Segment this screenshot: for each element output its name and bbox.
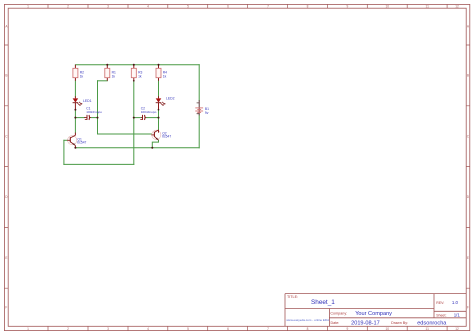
- junction dots: [74, 64, 159, 149]
- wire Q1 base stub: [64, 139, 67, 141]
- node R4 top: [158, 64, 160, 66]
- svg-text:Drawn By:: Drawn By:: [391, 321, 408, 325]
- svg-text:edsonrocha: edsonrocha: [417, 320, 447, 326]
- node Q2 emitter: [151, 147, 153, 149]
- wire C2 right lead: [146, 117, 159, 119]
- svg-text:5: 5: [187, 5, 189, 9]
- svg-text:4: 4: [147, 5, 149, 9]
- battery B1: [195, 100, 209, 115]
- node C2 left: [133, 117, 135, 119]
- svg-text:1.0: 1.0: [452, 300, 459, 305]
- wires (green): [64, 65, 199, 165]
- svg-text:6: 6: [227, 5, 229, 9]
- svg-text:LED2: LED2: [166, 96, 175, 100]
- svg-text:10: 10: [386, 327, 390, 331]
- svg-text:B: B: [467, 74, 469, 78]
- svg-text:TITLE:: TITLE:: [287, 295, 298, 299]
- svg-text:100nFnopo: 100nFnopo: [86, 110, 102, 114]
- svg-text:LED1: LED1: [83, 99, 92, 103]
- svg-text:6: 6: [227, 327, 229, 331]
- node Q1 emitter: [74, 147, 76, 149]
- wire top power rail: [75, 64, 199, 66]
- svg-text:100nFnopo: 100nFnopo: [141, 110, 157, 114]
- svg-text:B: B: [5, 74, 7, 78]
- svg-text:Sheet:: Sheet:: [436, 314, 446, 318]
- node C1 left: [74, 117, 76, 119]
- svg-text:1k: 1k: [112, 74, 116, 78]
- wire up to Q1 base: [63, 140, 65, 164]
- node C1 right: [97, 117, 99, 119]
- svg-text:Sheet_1: Sheet_1: [311, 299, 335, 306]
- wire R2 to LED1: [74, 81, 76, 97]
- wire bottom cross to Q1 base: [64, 163, 134, 165]
- svg-text:Date:: Date:: [331, 321, 340, 325]
- transistor Q1: [67, 133, 86, 148]
- wire R3 down column: [133, 81, 135, 165]
- svg-text:1k: 1k: [80, 74, 84, 78]
- svg-text:12: 12: [455, 5, 459, 9]
- wire C1 left lead: [75, 117, 84, 119]
- svg-text:9: 9: [347, 5, 349, 9]
- svg-text:8: 8: [307, 327, 309, 331]
- wire R1/C1 to Q2 base vertical: [97, 81, 99, 134]
- svg-text:Your Company: Your Company: [355, 311, 392, 317]
- wire R4 to LED2: [158, 81, 160, 97]
- svg-text:E: E: [467, 256, 469, 260]
- wire cross to Q2 base: [98, 133, 152, 135]
- resistor R2: [73, 65, 84, 81]
- svg-text:E: E: [5, 256, 7, 260]
- wire battery bottom drop: [198, 115, 200, 148]
- svg-text:11: 11: [426, 5, 430, 9]
- svg-text:1/1: 1/1: [454, 313, 461, 318]
- svg-text:7: 7: [267, 327, 269, 331]
- LED LED2: [156, 96, 175, 109]
- wire battery top drop: [198, 65, 200, 101]
- wire Q2 emitter jog: [152, 140, 158, 148]
- svg-text:1: 1: [27, 5, 29, 9]
- svg-text:2: 2: [67, 327, 69, 331]
- svg-text:8: 8: [307, 5, 309, 9]
- svg-text:bc547: bc547: [162, 135, 171, 139]
- svg-text:10: 10: [386, 5, 390, 9]
- svg-text:Company:: Company:: [330, 312, 347, 316]
- svg-text:3: 3: [107, 5, 109, 9]
- node LED1 cathode: [74, 109, 76, 111]
- resistor R4: [156, 65, 167, 81]
- node R3 bottom: [133, 80, 135, 82]
- svg-text:1k: 1k: [163, 74, 167, 78]
- capacitor C2: [140, 107, 156, 120]
- capacitor C1: [84, 107, 102, 120]
- svg-text:9: 9: [347, 327, 349, 331]
- node C2 right: [158, 117, 160, 119]
- svg-text:3: 3: [107, 327, 109, 331]
- svg-text:11: 11: [426, 327, 430, 331]
- node R3 top: [133, 64, 135, 66]
- svg-text:REV:: REV:: [436, 301, 444, 305]
- wire LED1 to Q1 collector: [74, 110, 76, 133]
- transistor Q2: [152, 130, 172, 140]
- svg-text:5: 5: [187, 327, 189, 331]
- LED LED1: [73, 96, 92, 109]
- svg-text:7: 7: [267, 5, 269, 9]
- svg-text:4: 4: [147, 327, 149, 331]
- svg-text:1k: 1k: [138, 74, 142, 78]
- svg-text:F: F: [5, 306, 7, 310]
- resistor R3: [131, 65, 142, 81]
- wire C1 right lead: [91, 117, 98, 119]
- wire R1 bottom jog: [98, 80, 108, 82]
- svg-text:2: 2: [67, 5, 69, 9]
- node R1 top: [106, 64, 108, 66]
- svg-text:2019-08-17: 2019-08-17: [351, 320, 380, 326]
- svg-text:1: 1: [27, 327, 29, 331]
- node LED2 cathode: [158, 109, 160, 111]
- svg-text:www.easyeda.com - online EDA: www.easyeda.com - online EDA: [286, 318, 329, 322]
- svg-text:F: F: [467, 306, 469, 310]
- wire LED2 to Q2 collector: [158, 110, 160, 130]
- title block: [285, 294, 466, 327]
- svg-text:9v: 9v: [205, 111, 209, 115]
- svg-text:12: 12: [455, 327, 459, 331]
- wire C2 left lead: [134, 117, 141, 119]
- frame ticks left/right: [4, 45, 469, 288]
- resistor R1: [105, 65, 116, 81]
- svg-text:bc547: bc547: [77, 141, 86, 145]
- wire emitter ground rail: [75, 147, 199, 149]
